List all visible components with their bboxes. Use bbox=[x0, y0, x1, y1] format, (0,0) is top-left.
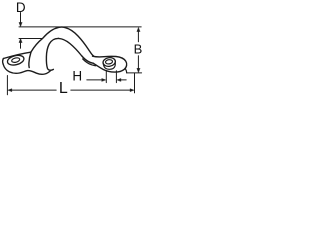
H hole extension line left bbox=[105, 70, 107, 82]
H left arrow bbox=[87, 79, 102, 81]
L dimension line left bbox=[11, 89, 56, 91]
B top arrow bbox=[137, 31, 139, 42]
dimension line top (tangent outer arch, D/B top extension) bbox=[19, 26, 141, 28]
H hole extension line right bbox=[115, 71, 117, 83]
L right extension line bbox=[134, 73, 136, 93]
left leg front corner edge bbox=[29, 52, 31, 68]
B bottom extension line bbox=[127, 72, 142, 74]
D top arrow bbox=[20, 13, 22, 24]
svg-text:D: D bbox=[16, 0, 26, 15]
svg-text:L: L bbox=[59, 80, 68, 97]
H right arrow bbox=[121, 79, 126, 81]
svg-text:H: H bbox=[72, 69, 82, 84]
outer arch silhouette with left leg front edge bbox=[31, 27, 94, 56]
B bottom arrow bbox=[137, 56, 139, 69]
D bottom arrow bbox=[20, 42, 22, 48]
left foot top edge bbox=[3, 52, 30, 58]
inner arch opening left side bbox=[46, 38, 58, 70]
svg-text:B: B bbox=[134, 42, 143, 57]
L left extension line bbox=[6, 76, 8, 95]
right foot bottom-right corner to extension line bbox=[125, 69, 126, 73]
right foot hole inner rim bbox=[105, 59, 113, 64]
right foot hole depth wall bbox=[103, 63, 115, 69]
left foot / base bottom edge bbox=[3, 64, 51, 74]
L dimension line right bbox=[71, 89, 131, 91]
dimension line inner top (D bottom extension) bbox=[19, 38, 42, 40]
left foot hole inner rim bbox=[11, 57, 20, 63]
right foot hole outer rim bbox=[102, 57, 116, 67]
right leg front corner edge bbox=[83, 59, 96, 66]
left foot left rounded end bbox=[2, 59, 5, 65]
right foot outline bbox=[93, 56, 127, 72]
left foot hole outer rim bbox=[6, 54, 24, 67]
inner arch right side bbox=[59, 38, 94, 63]
